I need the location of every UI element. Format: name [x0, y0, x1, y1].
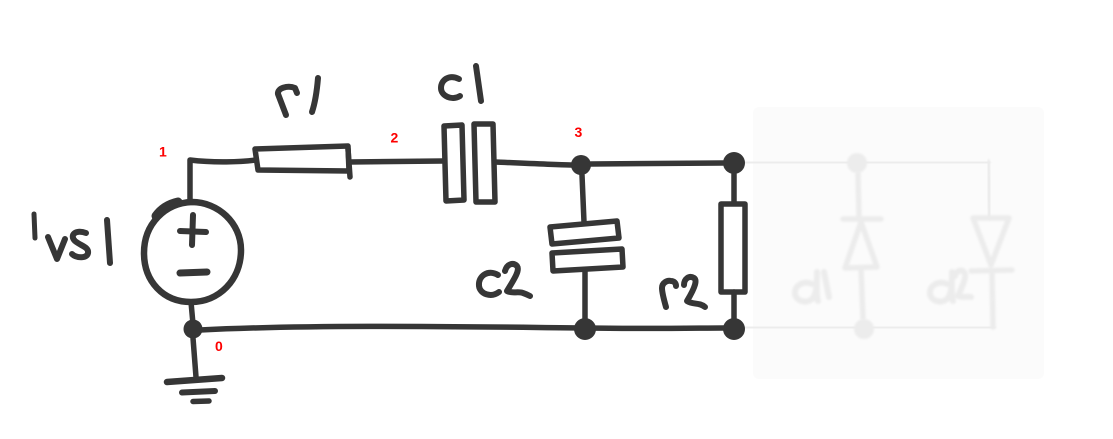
label r1: [278, 78, 318, 115]
ground: [167, 378, 222, 402]
wire node 3 to r2 top node: [591, 163, 723, 164]
label d1 (ghost): [795, 272, 829, 301]
svg-text:0: 0: [215, 338, 223, 354]
ghost panel (pending subcircuit background): [753, 107, 1044, 379]
diode d2: [971, 218, 1012, 327]
label d2 (ghost): [930, 271, 971, 302]
wire c1 to node 3: [495, 162, 574, 165]
wire r1 to capacitor c1: [349, 161, 443, 162]
voltage source VS1: [144, 202, 241, 302]
junction node 0: [184, 320, 203, 339]
wire r2 bottom lead: [731, 292, 737, 319]
junction r2 bottom: [723, 318, 745, 340]
wire (ghost) bottom return net: [745, 327, 993, 328]
label vs1: [48, 220, 110, 263]
wire from node 1 corner to resistor r1: [190, 160, 256, 202]
junction r2 top: [723, 152, 745, 174]
label c1: [441, 66, 481, 101]
wire bottom return net node 0: [200, 326, 724, 330]
vs1 pen overlap blob: [156, 202, 178, 216]
resistor r1: [255, 146, 350, 177]
junction (ghost) bottom of d1: [854, 319, 874, 339]
label c2: [479, 264, 530, 296]
wire r2 top lead: [731, 174, 737, 205]
vs1 plus terminal: [180, 215, 206, 245]
stray pen mark: [34, 214, 35, 238]
resistor r2: [721, 204, 745, 292]
junction node 3: [571, 155, 591, 175]
vs1 minus terminal: [180, 272, 207, 273]
svg-text:1: 1: [159, 144, 167, 160]
wire node 3 down to c2: [582, 175, 584, 222]
wire vs1 bottom to node 0: [191, 302, 193, 324]
junction c2 bottom: [574, 318, 596, 340]
junction (ghost) top of d1: [847, 153, 867, 173]
wire (ghost) corner down to d2: [988, 162, 990, 217]
diode d1: [843, 174, 881, 318]
svg-text:2: 2: [391, 130, 399, 146]
wire c2 to bottom net: [582, 271, 588, 319]
label r2: [662, 277, 705, 307]
capacitor C1: [444, 124, 495, 202]
capacitor C2: [550, 221, 623, 271]
wire (ghost) node 3 net to diode branch top: [745, 162, 988, 163]
svg-text:3: 3: [575, 124, 583, 140]
wire node 0 to ground: [193, 338, 196, 377]
